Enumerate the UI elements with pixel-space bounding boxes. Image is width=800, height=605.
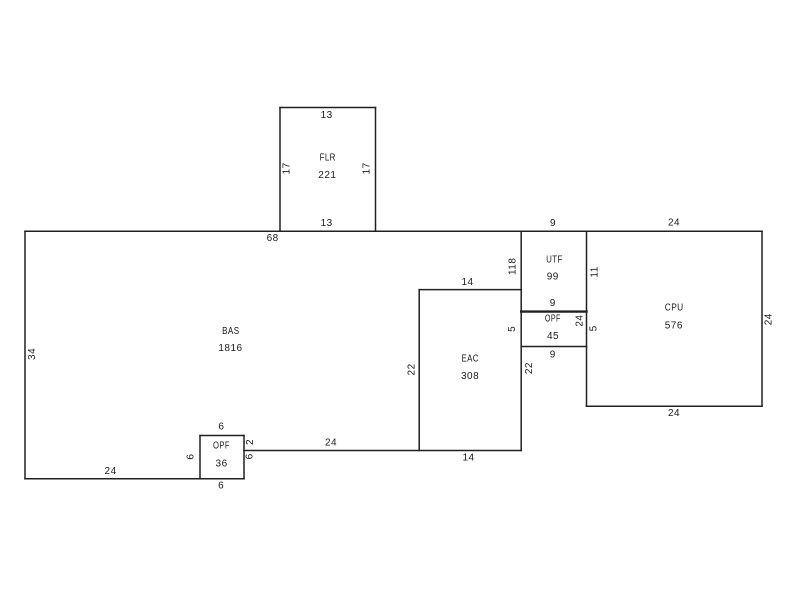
svg-text:34: 34 <box>27 348 38 360</box>
svg-text:14: 14 <box>462 453 474 464</box>
wall BAS left <box>24 231 26 479</box>
svg-text:118: 118 <box>508 258 519 275</box>
svg-text:11: 11 <box>590 266 601 277</box>
svg-text:EAC: EAC <box>462 354 479 365</box>
wall UTF bottom / OPF top (thick divider) <box>521 310 586 312</box>
svg-text:45: 45 <box>547 331 559 342</box>
svg-text:9: 9 <box>550 298 556 309</box>
svg-text:14: 14 <box>461 277 473 288</box>
wall UTF right / CPU left <box>586 231 588 406</box>
wall OPF36 top <box>200 435 244 437</box>
svg-text:68: 68 <box>267 233 279 244</box>
svg-text:UTF: UTF <box>546 255 563 266</box>
wall OPF36 left <box>199 436 201 479</box>
svg-text:221: 221 <box>318 170 336 181</box>
wall CPU right <box>761 231 763 406</box>
svg-text:24: 24 <box>105 466 117 477</box>
svg-text:22: 22 <box>524 362 535 374</box>
wall FLR left <box>279 108 281 232</box>
svg-text:13: 13 <box>321 110 333 121</box>
svg-text:24: 24 <box>574 315 585 327</box>
wall EAC bottom and porch link <box>244 450 521 452</box>
svg-text:6: 6 <box>186 454 197 460</box>
svg-text:2: 2 <box>245 439 256 445</box>
svg-text:5: 5 <box>507 326 518 332</box>
wall BAS bottom <box>25 478 244 480</box>
wall main top <box>25 230 762 232</box>
svg-text:36: 36 <box>216 459 228 470</box>
svg-text:17: 17 <box>282 162 293 174</box>
svg-text:576: 576 <box>665 320 683 331</box>
svg-text:FLR: FLR <box>320 153 336 164</box>
svg-text:13: 13 <box>321 218 333 229</box>
svg-text:9: 9 <box>550 350 556 361</box>
svg-text:24: 24 <box>325 437 337 448</box>
svg-text:OPF: OPF <box>545 314 561 325</box>
svg-text:6: 6 <box>218 481 224 492</box>
wall CPU bottom <box>587 405 763 407</box>
wall EAC top <box>419 289 521 291</box>
svg-text:99: 99 <box>547 271 559 282</box>
svg-text:CPU: CPU <box>665 303 684 314</box>
svg-text:308: 308 <box>461 371 479 382</box>
wall FLR top <box>280 107 376 109</box>
wall OPF36 right <box>243 436 245 479</box>
svg-text:5: 5 <box>589 325 600 331</box>
wall OPF45 bottom <box>521 346 586 348</box>
svg-text:22: 22 <box>407 363 418 375</box>
svg-text:6: 6 <box>245 453 256 459</box>
svg-text:BAS: BAS <box>222 326 239 337</box>
wall EAC left <box>418 290 420 451</box>
svg-text:1816: 1816 <box>218 343 242 354</box>
wall FLR right <box>375 108 377 232</box>
svg-text:24: 24 <box>668 408 680 419</box>
svg-text:24: 24 <box>763 313 774 325</box>
svg-text:24: 24 <box>668 218 680 229</box>
svg-text:OPF: OPF <box>213 441 230 452</box>
svg-text:17: 17 <box>362 162 373 174</box>
svg-text:6: 6 <box>218 422 224 433</box>
wall EAC right / UTF left <box>520 231 522 450</box>
svg-text:9: 9 <box>550 218 556 229</box>
